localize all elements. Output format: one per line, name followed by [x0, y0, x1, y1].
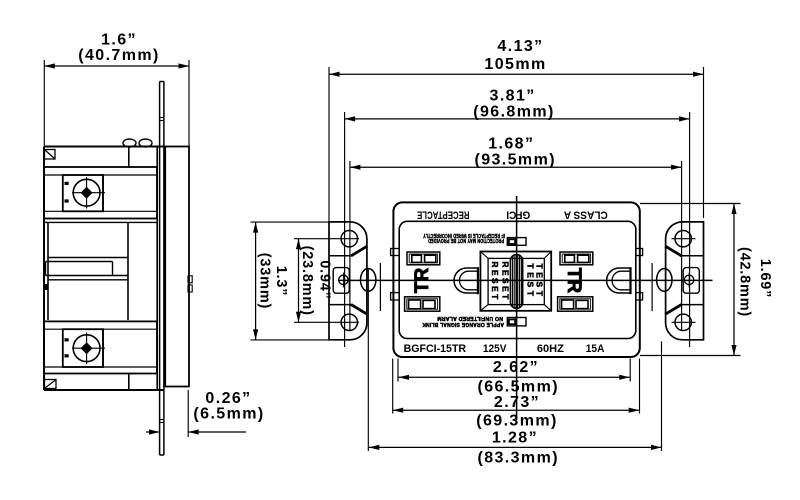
svg-text:TEST: TEST: [535, 263, 545, 299]
svg-text:(93.5mm): (93.5mm): [474, 152, 555, 169]
svg-text:3.81”: 3.81”: [490, 88, 536, 105]
svg-text:(96.8mm): (96.8mm): [473, 104, 554, 121]
svg-text:1.69”: 1.69”: [757, 259, 773, 298]
svg-text:1.6”: 1.6”: [101, 32, 137, 49]
svg-text:125V: 125V: [483, 343, 507, 355]
svg-text:2.73”: 2.73”: [494, 394, 540, 411]
svg-text:(6.5mm): (6.5mm): [193, 406, 264, 423]
svg-text:GFCI: GFCI: [506, 209, 530, 221]
svg-text:(69.3mm): (69.3mm): [476, 413, 557, 430]
svg-text:1.28”: 1.28”: [492, 430, 538, 447]
svg-text:TEST: TEST: [525, 263, 535, 299]
svg-text:NO UNFILTERED ALARM: NO UNFILTERED ALARM: [437, 315, 503, 321]
svg-text:60HZ: 60HZ: [537, 343, 564, 355]
svg-text:BGFCI-15TR: BGFCI-15TR: [404, 343, 467, 355]
svg-text:15A: 15A: [586, 343, 605, 355]
svg-text:APPLE ORANGE SIGNAL BLINK: APPLE ORANGE SIGNAL BLINK: [422, 321, 504, 327]
svg-text:RECEPTACLE: RECEPTACLE: [417, 209, 470, 221]
svg-text:RESET: RESET: [500, 261, 510, 301]
svg-text:105mm: 105mm: [484, 56, 546, 73]
svg-text:4.13”: 4.13”: [497, 38, 543, 55]
svg-text:TR: TR: [412, 267, 433, 293]
svg-text:1.3”: 1.3”: [273, 266, 289, 297]
svg-text:CLASS A: CLASS A: [564, 209, 608, 221]
svg-text:2.62”: 2.62”: [493, 359, 539, 376]
svg-text:TR: TR: [563, 268, 584, 294]
svg-text:(66.5mm): (66.5mm): [477, 379, 558, 396]
svg-text:RESET: RESET: [490, 261, 500, 301]
svg-text:(23.8mm): (23.8mm): [299, 246, 315, 316]
svg-text:PROTECTION MAY NOT BE PROVIDED: PROTECTION MAY NOT BE PROVIDED: [428, 237, 504, 243]
svg-text:0.26”: 0.26”: [205, 390, 251, 407]
svg-text:1.68”: 1.68”: [488, 136, 534, 153]
svg-text:(42.8mm): (42.8mm): [737, 247, 753, 317]
svg-text:(83.3mm): (83.3mm): [477, 450, 558, 467]
svg-text:0.94”: 0.94”: [317, 260, 333, 299]
svg-text:(33mm): (33mm): [256, 253, 272, 309]
svg-text:(40.7mm): (40.7mm): [78, 47, 159, 64]
